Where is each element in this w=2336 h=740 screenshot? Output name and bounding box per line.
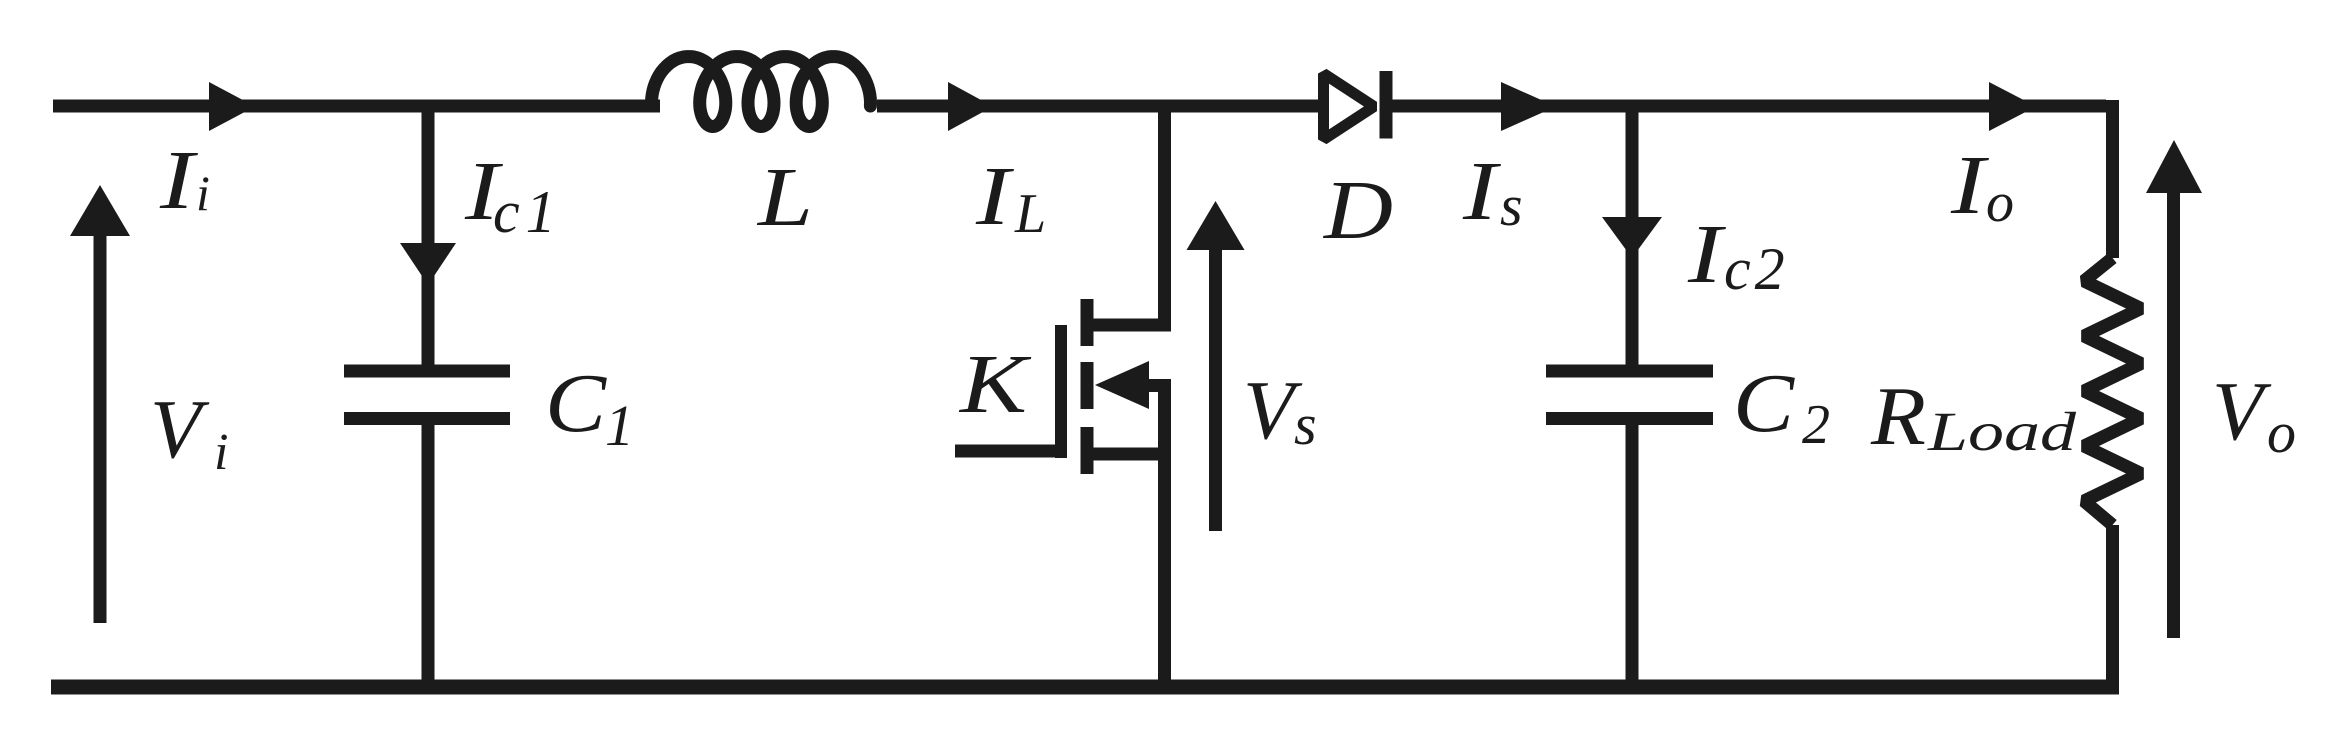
diode D triangle xyxy=(1324,74,1375,140)
bottom rail wire xyxy=(51,680,2119,695)
V_i arrowhead xyxy=(70,185,130,236)
svg-text:D: D xyxy=(1323,164,1393,257)
svg-text:L: L xyxy=(757,151,813,244)
transistor K channel bar middle xyxy=(1081,362,1094,409)
wire C2 branch lower xyxy=(1626,425,1639,694)
V_i arrow shaft xyxy=(94,236,107,623)
svg-text:i: i xyxy=(196,165,210,221)
svg-text:i: i xyxy=(214,424,228,481)
arrowhead inductor current I_L xyxy=(948,82,993,131)
svg-text:o: o xyxy=(2267,400,2296,465)
wire top rail left segment xyxy=(53,100,660,113)
svg-text:I: I xyxy=(1950,139,1990,232)
I_c2 arrow shaft xyxy=(1626,106,1639,225)
V_s arrowhead xyxy=(1187,201,1245,250)
svg-text:s: s xyxy=(1500,173,1523,238)
transistor K body lead xyxy=(1145,386,1165,455)
inductor L coil xyxy=(652,57,871,127)
transistor K gate lead xyxy=(955,445,1061,458)
transistor K body arrow xyxy=(1095,361,1149,409)
wire C1 branch lower xyxy=(422,425,435,694)
I_c1 arrowhead (down) xyxy=(400,243,456,285)
svg-text:K: K xyxy=(959,338,1032,431)
wire top rail right segment xyxy=(1392,100,2106,113)
transistor K source lead xyxy=(1087,448,1165,461)
svg-text:C: C xyxy=(545,357,607,450)
resistor R_Load top lead xyxy=(2106,100,2119,258)
capacitor C1 top plate xyxy=(344,365,510,378)
resistor R_Load zigzag xyxy=(2084,258,2141,525)
svg-text:I: I xyxy=(1687,208,1727,301)
svg-text:V: V xyxy=(2212,365,2272,458)
resistor R_Load bottom lead xyxy=(2106,525,2119,694)
wire MOSFET source to bottom rail xyxy=(1158,448,1171,694)
svg-text:c2: c2 xyxy=(1724,236,1789,302)
wire C2 branch upper xyxy=(1626,106,1639,365)
svg-text:s: s xyxy=(1294,392,1317,457)
svg-text:I: I xyxy=(159,134,199,227)
svg-text:Load: Load xyxy=(1927,401,2077,462)
V_o arrow shaft xyxy=(2167,190,2180,638)
diode D cathode bar xyxy=(1380,71,1393,139)
wire top rail middle segment xyxy=(877,100,1322,113)
transistor K gate bar xyxy=(1055,325,1067,458)
svg-text:I: I xyxy=(1462,145,1502,238)
I_c2 arrowhead (down) xyxy=(1602,217,1662,258)
svg-text:C: C xyxy=(1733,357,1795,450)
svg-text:V: V xyxy=(150,383,210,476)
arrowhead switch current I_s xyxy=(1501,82,1556,131)
capacitor C2 bottom plate xyxy=(1546,412,1713,425)
transistor K drain lead xyxy=(1087,106,1165,325)
transistor K channel bar bottom xyxy=(1081,427,1094,474)
arrowhead input current I_i xyxy=(209,82,255,131)
wire C1 branch upper xyxy=(422,106,435,365)
svg-text:c1: c1 xyxy=(493,179,562,245)
transistor K channel bar top xyxy=(1081,299,1094,346)
arrowhead output current I_o xyxy=(1989,82,2036,131)
capacitor C1 bottom plate xyxy=(344,412,510,425)
capacitor C2 top plate xyxy=(1546,365,1713,378)
svg-text:2: 2 xyxy=(1802,394,1830,456)
V_s arrow shaft xyxy=(1209,248,1222,531)
V_o arrowhead xyxy=(2146,140,2202,193)
svg-text:o: o xyxy=(1986,172,2014,234)
svg-text:1: 1 xyxy=(605,393,634,458)
svg-text:L: L xyxy=(1014,183,1046,245)
I_c1 arrow shaft xyxy=(422,106,435,250)
svg-text:I: I xyxy=(975,150,1015,243)
svg-text:R: R xyxy=(1870,370,1926,463)
